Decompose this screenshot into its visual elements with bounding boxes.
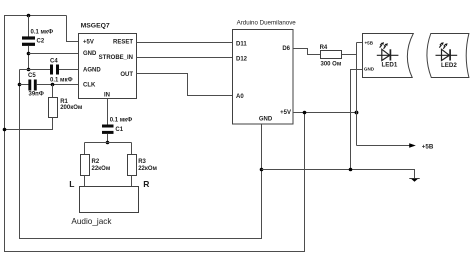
wire R4 to LED1 anode vertical [342, 54, 357, 56]
svg-text:GND: GND [83, 51, 97, 57]
node AGND junction [27, 68, 31, 72]
wire OUT to A0 [137, 74, 233, 96]
resistor R4 [321, 51, 342, 59]
wire IN to C1 [107, 99, 109, 125]
IC Arduino Duemilanove box [233, 30, 294, 125]
node C5 junction [18, 83, 22, 87]
svg-text:+5В: +5В [422, 143, 434, 150]
svg-text:0.1 мкФ: 0.1 мкФ [31, 30, 54, 36]
IC U1 MSGEQ7 box [79, 34, 137, 99]
connector Audio_jack box [80, 187, 139, 213]
svg-text:R: R [143, 179, 149, 189]
capacitor C1 [102, 125, 114, 128]
capacitor C2 [28, 16, 30, 37]
svg-text:MSGEQ7: MSGEQ7 [81, 22, 110, 29]
wire R1 top [52, 85, 54, 98]
wire LED1 GND down [351, 70, 363, 170]
svg-text:Audio_jack: Audio_jack [71, 217, 112, 226]
wire R1 bottom to +5V loop [5, 118, 53, 130]
svg-text:R2: R2 [92, 159, 100, 165]
svg-text:R3: R3 [138, 159, 146, 165]
wire D6 to R4 [293, 49, 321, 55]
svg-text:D6: D6 [282, 46, 290, 52]
svg-text:GND: GND [259, 116, 273, 122]
svg-text:GND: GND [364, 67, 375, 72]
node C2/GND junction [27, 52, 31, 56]
svg-text:IN: IN [104, 92, 110, 98]
wire +5V rail from Arduino [293, 112, 357, 114]
svg-text:+5V: +5V [83, 39, 94, 45]
+5В arrowhead [409, 143, 416, 147]
node C1 / R2 R3 junction [106, 141, 110, 145]
svg-text:0.1 мкФ: 0.1 мкФ [110, 118, 133, 124]
svg-text:C2: C2 [37, 39, 45, 45]
wire C1 junction rail [85, 142, 132, 144]
svg-text:C4: C4 [50, 59, 58, 65]
resistor R2 [81, 155, 90, 176]
wire LED1 anode vertical (+5V branch) [356, 43, 358, 146]
wire LED1 +5В stub [357, 42, 363, 44]
node CLK/R1 junction [51, 83, 55, 87]
ground symbol [409, 178, 419, 180]
node +5V top / C2 [27, 14, 31, 18]
svg-text:+5V: +5V [280, 110, 291, 116]
wire R2 top [84, 143, 86, 155]
svg-text:Arduino Duemilanove: Arduino Duemilanove [237, 20, 297, 27]
node GND bus start [260, 168, 264, 172]
led LED1 symbol [377, 42, 399, 61]
wire R2 to jack L [84, 176, 86, 187]
wire C4 to AGND pin [59, 69, 79, 71]
wire C2 to MSGEQ7 GND pin [29, 53, 79, 55]
wire +5В arrow line [357, 145, 410, 147]
node +5V loop branch [303, 111, 307, 115]
svg-text:0.1 мкФ: 0.1 мкФ [50, 77, 73, 83]
node R1 / +5V loop [3, 128, 7, 132]
wire +5V top rail [5, 15, 67, 17]
svg-text:+5В: +5В [365, 40, 374, 45]
svg-text:RESET: RESET [113, 39, 133, 45]
wire +5V feed to MSGEQ7 pin [67, 16, 79, 42]
svg-text:22кОм: 22кОм [92, 166, 111, 172]
wire R3 to jack R [131, 176, 133, 187]
module LED2 box [427, 34, 469, 78]
module LED1 box [363, 34, 414, 78]
svg-text:C5: C5 [28, 73, 36, 79]
wire +5V left loop (left side, bottom, up to +5V rail) [5, 15, 305, 252]
wire C5 left stub [20, 84, 29, 86]
svg-text:R4: R4 [320, 45, 328, 51]
wire GND bus to earth [262, 170, 415, 179]
node LED1 GND / bus [349, 168, 353, 172]
svg-text:300 Ом: 300 Ом [321, 62, 342, 68]
wire RESET to D11 [137, 42, 233, 44]
wire AGND rail to C4 [20, 69, 51, 71]
svg-text:L: L [69, 179, 74, 189]
svg-text:200кОм: 200кОм [60, 105, 83, 111]
svg-text:LED2: LED2 [441, 62, 457, 69]
wire R3 top [131, 143, 133, 155]
svg-text:STROBE_IN: STROBE_IN [99, 55, 133, 61]
wire C5 to CLK pin [37, 84, 79, 86]
led LED2 symbol [436, 42, 458, 61]
svg-text:OUT: OUT [120, 72, 133, 78]
capacitor C4 [50, 65, 53, 75]
svg-text:AGND: AGND [83, 68, 101, 74]
wire STROBE_IN to D12 [137, 57, 233, 59]
svg-text:D11: D11 [236, 42, 247, 48]
svg-text:C1: C1 [115, 127, 123, 133]
svg-text:D12: D12 [236, 56, 248, 62]
resistor R3 [128, 155, 137, 176]
svg-text:22кОм: 22кОм [138, 166, 157, 172]
resistor R1 [49, 98, 58, 118]
wire GND loop (left vertical, bottom, up to Arduino GND) [20, 70, 262, 239]
svg-text:LED1: LED1 [382, 62, 398, 69]
svg-text:CLK: CLK [83, 83, 96, 89]
svg-text:A0: A0 [236, 94, 244, 100]
capacitor C5 [28, 80, 31, 91]
node +5V / LED vertical [355, 111, 359, 115]
svg-text:39пФ: 39пФ [29, 91, 44, 97]
